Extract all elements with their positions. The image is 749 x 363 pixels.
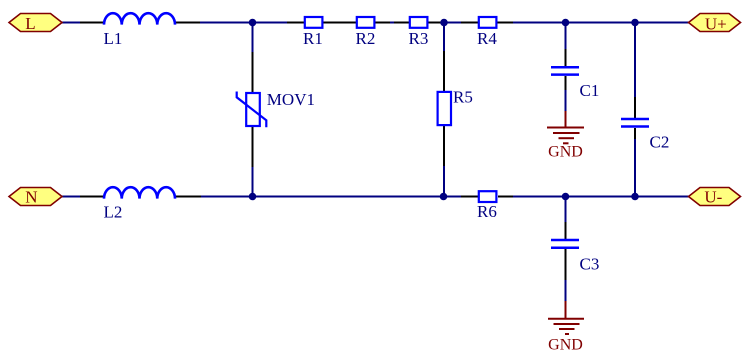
svg-text:MOV1: MOV1	[267, 90, 315, 109]
svg-text:R4: R4	[477, 29, 497, 48]
svg-text:R1: R1	[303, 29, 323, 48]
svg-text:GND: GND	[548, 337, 583, 354]
svg-text:L2: L2	[104, 202, 123, 221]
svg-text:L1: L1	[104, 29, 123, 48]
svg-text:GND: GND	[548, 143, 583, 160]
svg-text:C2: C2	[650, 133, 670, 152]
svg-text:R5: R5	[453, 87, 473, 106]
svg-text:R2: R2	[356, 29, 376, 48]
svg-text:C3: C3	[580, 255, 600, 274]
svg-text:N: N	[25, 188, 37, 207]
svg-text:R6: R6	[477, 202, 497, 221]
svg-text:R3: R3	[409, 29, 429, 48]
svg-text:L: L	[25, 14, 35, 33]
svg-text:U-: U-	[704, 188, 722, 207]
svg-text:C1: C1	[580, 81, 600, 100]
svg-text:U+: U+	[705, 14, 727, 33]
